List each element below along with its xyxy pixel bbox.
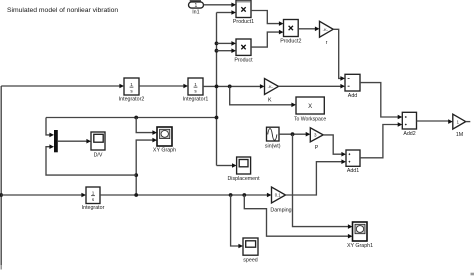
scope block XY Graph [153,127,176,154]
wire Product1 out to Product2 in1 [251,11,284,26]
svg-text:1M: 1M [456,132,463,138]
integrator block Integrator1 [183,78,209,103]
svg-text:s: s [194,88,197,93]
product P1 block Product1 [233,1,254,25]
node sin branch junction [291,132,295,136]
wire Add2 out to gain 1/M [417,119,453,124]
corner mark bottom right [471,273,474,276]
wire Product2 out to gain r [298,27,319,32]
wire speed line into Integrator [1,193,86,198]
wire gain K out to Add in2 [279,84,346,89]
node feedback-speed junction [0,193,3,197]
node speed-scope junction [229,193,233,197]
wire displacement branch line y117 [46,117,217,119]
svg-text:D/V: D/V [94,153,103,159]
node mux line junction [134,173,138,177]
wire Mux to D/V [58,139,91,144]
svg-text:Product2: Product2 [280,39,301,45]
svg-text:To Workspace: To Workspace [294,117,326,123]
mux block [54,130,58,152]
wire to XY Graph in2 [136,138,157,195]
gain K [265,79,279,104]
node bus-Product junctions [215,42,219,53]
svg-text:-K-: -K- [323,27,329,32]
svg-text:X: X [308,104,312,110]
wire bus to Product in2 [217,48,237,53]
wire bus to Displacement scope [217,163,237,168]
wire left feedback into Integrator2 [1,84,124,89]
svg-text:In1: In1 [192,10,199,16]
svg-text:Product: Product [234,58,253,64]
svg-text:Add: Add [348,93,357,99]
wire sin branch down to XY Graph1 in1 [293,134,353,229]
product block Product2 [280,20,301,45]
wire to To Workspace [230,86,296,107]
svg-text:r: r [326,40,328,46]
wire Integrator out to Damping [100,193,272,198]
svg-text:1: 1 [130,82,133,87]
svg-text:K: K [268,98,272,104]
scope block XY Graph1 [347,222,373,249]
node xy drop junction [134,116,138,120]
node speed-xy1 junction [242,193,246,197]
svg-text:s: s [92,197,95,202]
svg-text:-K-: -K- [268,84,274,89]
svg-text:Add1: Add1 [347,168,359,174]
adder block Add [345,74,360,99]
gain r [320,21,334,46]
svg-text:Displacement: Displacement [227,176,260,182]
wire 1/M out stub [466,121,471,123]
svg-text:XY Graph: XY Graph [153,148,176,154]
wire to XY Graph in1 [136,118,157,135]
node workspace junction [228,85,232,89]
svg-text:1: 1 [92,191,95,196]
product block Product [234,39,253,64]
wire Integrator2 to Integrator1 [139,84,188,89]
wire In1 to Product1 [204,3,236,8]
svg-text:Integrator: Integrator [82,205,105,211]
integrator block Integrator2 [119,78,145,103]
svg-text:sin(wt): sin(wt) [265,144,281,150]
wire sin out to gain P [279,132,310,137]
wire branch down to Mux in1 [46,118,54,138]
svg-text:1: 1 [194,82,197,87]
wire Add out to Add2 in1 [360,83,402,120]
svg-text:Simulated model of nonliear vi: Simulated model of nonliear vibration [7,7,118,14]
wire speed branch to XY Graph1 in2 [244,195,352,239]
gain Damping [270,187,291,214]
gain 1/M [453,114,466,138]
node bus y117 junction [215,116,219,120]
wire Product out to Product2 in2 [251,30,284,47]
svg-text:Damping: Damping [270,208,291,214]
svg-text:Integrator1: Integrator1 [183,97,209,103]
svg-text:1: 1 [457,119,460,124]
inport In1 [189,0,204,16]
wire gain P out to Add1 in1 [323,135,346,157]
svg-text:speed: speed [243,258,257,264]
block To Workspace [294,97,326,123]
wire to speed scope [231,195,243,248]
source block sin(wt) [265,127,281,149]
wire Integrator1 out to gain K [203,84,265,89]
integrator block Integrator [82,187,105,211]
svg-text:P: P [315,145,319,151]
adder block Add2 [402,112,416,137]
svg-text:Integrator2: Integrator2 [119,97,145,103]
svg-text:s: s [130,88,133,93]
scope block Displacement [227,157,260,182]
gain P [310,128,323,151]
wire Add1 out to Add2 in2 [360,122,402,158]
adder block Add1 [346,150,360,174]
svg-text:XY Graph1: XY Graph1 [347,243,373,249]
wire displacement bus vertical [216,13,218,166]
scope block D/V [91,132,105,159]
svg-text:Add2: Add2 [403,131,415,137]
wire left feedback vertical [0,86,2,265]
svg-text:0.1: 0.1 [275,193,281,198]
wire gain r out to Add in1 [333,29,345,80]
wire Damping out to Add1 in2 [286,159,347,195]
wire mux in2 line [46,144,136,175]
svg-text:1: 1 [195,3,198,9]
node bus-Integrator1 junction [215,85,219,89]
scope block speed [243,238,258,264]
svg-text:Product1: Product1 [233,19,254,25]
node speed-xy junction [134,193,138,197]
node bus top corner / wire bus to Product1 in2 [217,10,237,15]
wire bus to Product in1 [217,41,237,46]
svg-text:3: 3 [314,133,317,138]
